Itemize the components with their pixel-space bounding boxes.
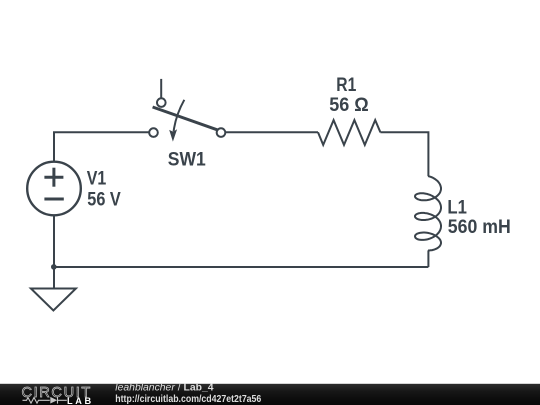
svg-text:56 V: 56 V <box>87 190 121 211</box>
V1 plus sign <box>44 168 63 187</box>
svg-text:R1: R1 <box>336 75 356 96</box>
svg-text:56 Ω: 56 Ω <box>329 95 369 116</box>
inductor L1 <box>415 176 441 251</box>
svg-text:V1: V1 <box>87 169 107 190</box>
svg-text:L1: L1 <box>447 198 467 219</box>
wire bottom rail <box>54 266 428 268</box>
svg-text:SW1: SW1 <box>168 149 206 170</box>
ground <box>31 289 76 311</box>
switch SW1 left terminal circle <box>149 128 158 137</box>
junction node dot <box>51 264 57 270</box>
resistor R1 <box>318 120 380 145</box>
switch SW1 blade <box>153 107 219 130</box>
wire from V1 top corner to switch left terminal <box>54 132 149 161</box>
CircuitLab logo CIRCUIT outline text <box>22 385 92 401</box>
svg-text:LAB: LAB <box>67 396 94 405</box>
wire V1 bottom to junction <box>53 216 55 268</box>
CircuitLab logo diode triangle <box>50 397 57 404</box>
switch SW1 right terminal circle <box>217 128 226 137</box>
svg-text:560 mH: 560 mH <box>448 217 511 238</box>
CircuitLab logo wire to LAB <box>58 399 67 401</box>
label V1 value 56 V <box>87 190 121 211</box>
wire switch right terminal to resistor <box>226 131 319 133</box>
svg-text:http://circuitlab.com/cd427et2: http://circuitlab.com/cd427et2t7a56 <box>115 394 262 405</box>
switch SW1 top stub <box>160 79 162 98</box>
label L1 <box>447 198 467 219</box>
wire junction to ground <box>53 267 55 288</box>
footer credit line: leahblancher / Lab_4 <box>115 383 262 405</box>
label L1 value 560 mH <box>448 217 511 238</box>
svg-text:leahblancher / Lab_4: leahblancher / Lab_4 <box>115 383 213 394</box>
label SW1 <box>168 149 206 170</box>
V1 minus sign <box>44 198 63 201</box>
voltage source V1 circle <box>27 162 81 216</box>
switch SW1 arrow head <box>169 129 177 141</box>
label R1 <box>336 75 356 96</box>
CircuitLab logo resistor zigzag <box>23 397 67 404</box>
CircuitLab logo LAB text <box>67 396 94 405</box>
switch SW1 motion arc <box>174 100 185 132</box>
label R1 value 56 ohm <box>329 95 369 116</box>
label V1 <box>87 169 107 190</box>
wire inductor bottom to bottom rail <box>427 250 429 267</box>
wire resistor to right corner down to inductor <box>380 132 428 176</box>
switch SW1 top terminal circle <box>157 98 166 107</box>
footer bar <box>0 384 540 405</box>
CircuitLab logo diode cathode bar <box>57 397 59 404</box>
